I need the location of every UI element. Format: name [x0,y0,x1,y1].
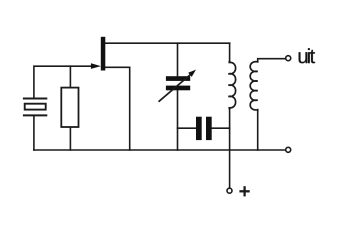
wire: primary coil top lead [229,43,231,61]
wire: left loop top (crystal/resistor node to transistor base) [34,66,93,98]
terminal: output bottom right [286,147,291,152]
wire: top rail (transistor collector to primary coil) [106,42,230,44]
terminal: uit output top [286,56,291,61]
wire: resistor bottom lead [69,127,71,150]
variable capacitor C1 [159,70,196,102]
label: uit [299,48,315,63]
wire: capacitor C2 left lead [178,127,197,129]
transistor Q1 [91,37,105,71]
wire: variable capacitor bottom lead [177,90,179,150]
wire: secondary coil bottom lead [257,110,259,150]
wire: transistor emitter to bottom rail [106,67,130,150]
wire: capacitor C2 right lead [212,127,230,129]
wire: resistor top lead [69,66,71,87]
terminal: plus supply [227,188,232,193]
wire: bottom rail [34,149,286,151]
crystal X1 [24,99,46,116]
inductor L1 primary winding [228,61,235,109]
wire: crystal bottom to bottom rail [33,115,35,150]
wire: variable capacitor top lead [177,43,179,76]
capacitor C2 [196,117,212,140]
resistor R1 [61,88,78,127]
label: plus sign [239,186,249,196]
wire: secondary coil top lead to uit terminal [258,59,286,62]
wire: primary coil bottom lead down to plus terminal [229,109,231,188]
inductor L2 secondary winding [250,62,258,110]
